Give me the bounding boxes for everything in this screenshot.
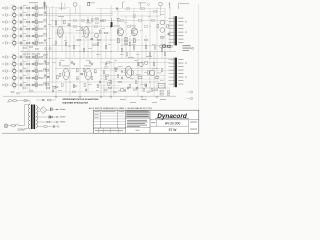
top rail2	[44, 15, 113, 17]
value label 15	[54, 43, 57, 46]
value label 8	[124, 21, 127, 24]
wire vertical	[141, 14, 143, 92]
resistor R36c	[53, 87, 56, 88]
input jack J11	[3, 84, 8, 87]
node	[45, 63, 48, 66]
wire	[30, 56, 32, 58]
wire	[21, 7, 26, 9]
resistor RG2	[110, 81, 112, 84]
wire h lr1	[100, 70, 174, 72]
wire stub tr	[35, 59, 37, 61]
label top b	[88, 1, 95, 4]
transistor Q3a	[35, 20, 38, 23]
resistor R20b	[55, 41, 57, 44]
wire vertical	[125, 16, 127, 58]
capacitor C11b	[32, 84, 33, 86]
potentiometer P7	[13, 54, 16, 59]
wire vertical	[169, 6, 171, 51]
input jack J10	[3, 77, 8, 80]
resistor R23	[93, 44, 96, 46]
capacitor C9a	[20, 70, 21, 73]
capacitor C4c	[44, 25, 45, 27]
wire down r2	[145, 96, 147, 101]
capacitor CM6	[71, 61, 72, 63]
value label 30	[58, 89, 62, 92]
label +V	[60, 108, 66, 111]
capacitor CG1	[121, 70, 122, 72]
ST1 pin 8 label	[178, 41, 183, 44]
wire vertical	[100, 8, 102, 96]
wire pair link	[37, 36, 39, 43]
wire stub pot	[13, 46, 15, 48]
wire horizontal	[100, 75, 165, 77]
junction node	[149, 81, 152, 84]
resistor RL7	[97, 84, 99, 87]
node	[45, 42, 48, 45]
value label 18	[120, 53, 124, 56]
wire	[30, 14, 32, 16]
resistor RF2	[134, 15, 136, 18]
value label 31	[76, 77, 79, 80]
label P5	[12, 32, 15, 35]
input jack J3	[3, 21, 8, 24]
resistor RC1	[73, 45, 75, 49]
dark component blob	[111, 22, 113, 27]
label bl4	[152, 101, 157, 104]
ST2 pin 4 label	[178, 69, 183, 72]
wire	[42, 21, 47, 23]
revision table row line 5	[94, 124, 126, 126]
resistor R31	[138, 77, 142, 79]
wire vertical	[121, 35, 123, 58]
input jack J1	[3, 7, 8, 10]
capacitor CM3	[127, 87, 128, 89]
wire h lr2	[100, 78, 165, 80]
wire	[16, 63, 20, 65]
value label 36	[130, 77, 134, 80]
wire stub tr	[35, 80, 37, 82]
wire	[30, 84, 32, 86]
top connector M2	[159, 2, 163, 6]
transformer TR1 primary winding	[28, 105, 30, 129]
arrow -V out	[57, 121, 59, 123]
wire stub tr	[35, 87, 37, 89]
input jack J4	[3, 28, 8, 31]
wire vertical	[161, 35, 163, 58]
capacitor C27	[168, 34, 170, 35]
transistor Q9a	[35, 69, 38, 72]
wire horizontal	[50, 26, 115, 28]
label top a	[29, 1, 38, 4]
type row divider left	[156, 120, 158, 126]
rev bottom cell divider 4	[118, 128, 120, 133]
transistor Q22	[83, 27, 89, 38]
label R5	[23, 32, 26, 35]
label lower1	[128, 56, 134, 59]
capacitor C6c	[44, 39, 45, 41]
capacitor C30	[145, 84, 146, 87]
capacitor C7a	[20, 56, 21, 59]
cluster right of vas	[96, 18, 104, 23]
wire stub tr	[35, 10, 37, 12]
ST2 pin 1 stub	[169, 59, 175, 61]
resistor R11a	[27, 84, 30, 86]
title block outer frame	[94, 110, 199, 133]
resistor R24	[100, 30, 102, 33]
transformer TR1 secondary winding	[36, 106, 38, 128]
wire vertical	[105, 35, 107, 58]
label Q11	[34, 81, 38, 84]
resistor R3c	[44, 19, 47, 20]
value label 23	[94, 71, 97, 74]
wire	[42, 84, 47, 86]
wire diagonal	[42, 61, 47, 64]
resistor R34	[57, 76, 59, 79]
wire thermal drop	[29, 101, 31, 105]
wire	[16, 84, 20, 86]
resistor RL16	[161, 68, 163, 71]
resistor RM9	[114, 68, 118, 70]
value label 33	[96, 89, 99, 92]
resistor RC3	[97, 42, 99, 46]
arrow 0V out	[57, 116, 59, 118]
ST1 pin 4 label	[178, 27, 183, 30]
label Q5	[34, 32, 38, 35]
value label 10	[140, 29, 143, 32]
value label 13	[160, 13, 164, 16]
ST2 pin 2 stub	[169, 62, 175, 64]
capacitor C4b	[32, 28, 33, 30]
label Q8	[34, 60, 38, 63]
fuse F1	[12, 125, 16, 127]
resistor RE3	[149, 53, 151, 56]
rev bottom cell divider 2	[103, 128, 105, 133]
resistor R6a	[27, 42, 30, 44]
wire dc out lower	[42, 121, 48, 123]
resistor RG6	[151, 88, 153, 91]
value label 7	[116, 17, 120, 20]
value label 38	[152, 89, 155, 92]
resistor RM2	[102, 20, 106, 22]
subcircuit box	[25, 52, 47, 58]
resistor RE5	[164, 52, 166, 55]
label Q4	[34, 25, 38, 28]
connector strip ST2	[175, 58, 177, 88]
revision table row line 6	[94, 127, 126, 129]
wire vertical	[149, 8, 151, 92]
capacitor C37	[47, 77, 50, 78]
wire stub pot	[13, 11, 15, 13]
resistor R29	[161, 37, 164, 39]
wire h lr3	[96, 85, 120, 87]
wire diagonal	[42, 54, 47, 57]
resistor RC6	[129, 42, 131, 46]
bracket mark x122	[123, 2, 125, 8]
resistor RB1	[104, 90, 107, 91]
resistor RM19	[153, 11, 157, 13]
label lower2	[146, 55, 152, 58]
capacitor C5b	[32, 35, 33, 37]
capacitor C42	[42, 100, 45, 101]
resistor RL6	[91, 76, 93, 79]
ground	[156, 96, 159, 98]
resistor RM17	[127, 26, 131, 28]
resistor R5b	[39, 35, 42, 37]
resistor RB4	[147, 91, 150, 92]
potentiometer P10	[13, 75, 16, 80]
transistor Q7a	[35, 55, 38, 58]
label bl3	[141, 98, 146, 101]
ST1 left rail	[173, 16, 175, 45]
label R9	[23, 67, 26, 70]
wire	[42, 7, 47, 9]
top rail4	[96, 8, 165, 10]
capacitor CM5	[99, 81, 100, 83]
label P7	[12, 53, 15, 56]
ground rail	[3, 95, 176, 97]
value label 1	[64, 39, 67, 42]
value label 21	[72, 67, 75, 70]
label R10	[23, 74, 26, 77]
wire	[21, 35, 26, 37]
wire horizontal	[20, 91, 120, 93]
wire stub tr	[35, 31, 37, 33]
wire dc out plus	[47, 109, 50, 111]
diode D40	[44, 126, 47, 127]
capacitor C8b	[32, 63, 33, 65]
node	[45, 14, 48, 17]
resistor RC8	[161, 48, 163, 52]
resistor R1c	[44, 5, 47, 6]
capacitor CH1	[52, 90, 53, 92]
wire v lr1	[103, 70, 105, 96]
info cell header text rows	[126, 110, 149, 113]
logo section left divider	[149, 110, 151, 133]
resistor RJ1	[23, 87, 26, 88]
resistor R39	[46, 84, 49, 86]
value label 32	[88, 83, 92, 86]
wire	[16, 42, 20, 44]
value label 24	[104, 67, 107, 70]
wire diagonal	[42, 40, 47, 43]
relay K1 inner	[160, 85, 165, 87]
smoothing capacitor C40	[51, 108, 53, 112]
summing bus x49.5	[49, 8, 51, 90]
resistor R37	[46, 63, 49, 65]
potentiometer P3	[13, 19, 16, 24]
wire dc out mid	[42, 116, 48, 118]
wire vertical	[137, 52, 139, 96]
potentiometer P9	[13, 68, 16, 73]
wire	[16, 21, 20, 23]
resistor RG1	[103, 71, 105, 74]
tick mark x140	[139, 3, 142, 10]
resistor RL9	[105, 76, 107, 79]
smoothing capacitor C41	[49, 116, 51, 119]
wire horizontal	[120, 15, 160, 17]
potentiometer P4	[13, 26, 16, 31]
resistor R35b	[77, 77, 79, 80]
power transistor Q30	[125, 66, 132, 78]
wire stub pot	[13, 18, 15, 20]
value label 37	[140, 83, 143, 86]
L mark x61	[59, 3, 67, 11]
resistor RD1	[24, 47, 27, 48]
below Q33 stub	[65, 80, 67, 92]
capacitor C3a	[20, 21, 21, 24]
wire to arrows	[55, 109, 57, 111]
resistor R32	[148, 71, 150, 75]
wire vertical	[145, 35, 147, 58]
resistor R21	[64, 21, 66, 24]
value label 25	[114, 59, 117, 62]
resistor RM4	[94, 26, 98, 28]
capacitor CL2	[73, 63, 74, 65]
label q26	[130, 25, 136, 28]
resistor RM3	[73, 26, 77, 28]
transistor Q23	[94, 33, 98, 37]
wire	[30, 7, 32, 9]
logo cell bottom line	[150, 119, 199, 121]
resistor RL15	[153, 62, 155, 65]
resistor RM13	[151, 20, 155, 22]
wire ps top	[36, 99, 42, 101]
wire to transformer	[20, 125, 25, 127]
label Q10	[34, 74, 38, 77]
transistor Q6a	[35, 41, 38, 44]
resistor RG3	[117, 75, 119, 78]
value label 29	[152, 67, 156, 70]
junction node	[156, 67, 159, 70]
value label 5	[102, 27, 105, 30]
wire	[42, 14, 47, 16]
label R1	[23, 4, 26, 7]
input jack J8	[3, 63, 8, 66]
value label 0	[58, 35, 61, 38]
label 0V	[60, 115, 66, 118]
bus wire x29.2	[28, 5, 30, 90]
wire vertical	[133, 8, 135, 51]
label Q1	[34, 4, 38, 7]
far right output circle b	[187, 97, 193, 99]
value label 45	[52, 85, 56, 88]
value label 39	[160, 79, 164, 82]
capacitor CL8	[105, 63, 106, 65]
transistor Q2a	[35, 13, 38, 16]
wire diagonal	[42, 12, 47, 15]
resistor RB2	[114, 92, 117, 93]
label g4	[157, 72, 162, 75]
resistor RL0	[59, 62, 61, 65]
wire vertical	[87, 16, 89, 58]
wire	[30, 35, 32, 37]
connector strip ST1	[175, 16, 177, 45]
bias diodes D20	[125, 38, 128, 45]
far right output circle a	[187, 91, 193, 93]
resistor RD2	[30, 46, 33, 47]
dark cluster right rail	[163, 45, 170, 48]
wire	[42, 70, 47, 72]
resistor R2b	[39, 14, 42, 16]
wire diag lj	[20, 64, 28, 72]
resistor RL1	[59, 73, 61, 76]
bridge rectifier GR1	[40, 107, 47, 114]
wire	[30, 77, 32, 79]
resistor RE1	[126, 53, 128, 56]
resistor RH5	[17, 93, 20, 94]
label P10	[12, 74, 15, 77]
resistor RM8	[106, 62, 110, 64]
ground	[141, 96, 144, 98]
rev bottom cell divider 3	[110, 128, 112, 133]
resistor R41	[48, 99, 51, 101]
resistor R5c	[44, 33, 47, 34]
relay K1	[159, 84, 166, 89]
input jack J7	[3, 56, 8, 59]
wire stub tr	[35, 38, 37, 40]
capacitor C43	[54, 125, 55, 128]
label P11	[12, 81, 15, 84]
label vas	[86, 21, 91, 24]
resistor RM11	[118, 81, 122, 83]
ST1 pin 3 stub	[169, 24, 175, 26]
value label 17	[96, 53, 100, 56]
label top d	[180, 2, 189, 5]
label Q2	[34, 11, 38, 14]
transistor Q31	[139, 62, 143, 66]
resistor RM6	[77, 39, 81, 41]
wire vertical	[83, 35, 85, 58]
transistor Q32	[150, 70, 155, 75]
junction node	[141, 61, 144, 64]
bracket mark x178	[178, 3, 180, 9]
capacitor C1a	[20, 7, 21, 10]
bracket mark x88	[88, 2, 90, 6]
junction node	[149, 57, 152, 60]
wire	[21, 14, 26, 16]
ST1 pin 6 stub	[169, 35, 175, 37]
value label 44	[44, 75, 47, 78]
capacitor CL11	[121, 77, 122, 79]
junction node	[69, 81, 72, 84]
transistor Q10a	[35, 76, 38, 79]
resistor R3a	[27, 21, 30, 23]
resistor RM16	[138, 20, 142, 22]
wire stub tr	[35, 17, 37, 19]
wire vertical	[153, 52, 155, 96]
label R4	[23, 25, 26, 28]
border bottom line	[2, 132, 199, 134]
wire	[8, 56, 13, 58]
wire vertical	[69, 8, 71, 96]
capacitor C10a	[20, 77, 21, 80]
wire v lr2	[113, 62, 115, 96]
value label 26	[124, 71, 127, 74]
resistor R9b	[39, 70, 42, 72]
resistor RG5	[143, 88, 145, 91]
summing bus x46.5	[46, 6, 48, 90]
label P4	[12, 25, 15, 28]
wire horizontal	[55, 68, 160, 70]
node	[45, 56, 48, 59]
resistor R10b	[39, 77, 42, 79]
wire vertical	[61, 16, 63, 51]
resistor R35	[77, 69, 79, 72]
resistor R11b	[39, 84, 42, 86]
wire primary bottom	[25, 128, 30, 130]
resistor RE4	[154, 46, 156, 49]
wire	[30, 28, 32, 30]
